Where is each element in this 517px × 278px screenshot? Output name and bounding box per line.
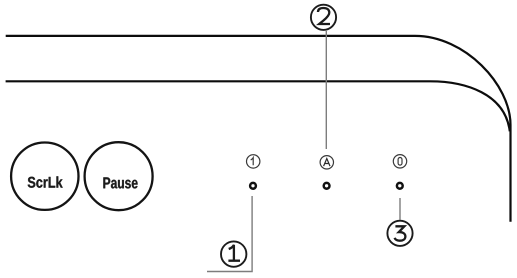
LED dot 2	[324, 183, 330, 189]
callout 1 leader line	[207, 196, 252, 272]
callout 3 leader line	[399, 198, 401, 220]
caps lock icon letter A	[324, 159, 330, 167]
callout 3 circle	[387, 221, 412, 246]
callout 3 digit	[395, 226, 406, 240]
callout 1 circle	[221, 241, 246, 266]
key ScrLk circle	[11, 143, 78, 210]
key Pause label	[103, 177, 137, 188]
num lock icon circle	[247, 155, 260, 168]
num lock icon digit 1	[251, 158, 254, 166]
callout 1 digit	[228, 245, 240, 261]
scroll lock icon circle	[393, 155, 406, 168]
keyboard inner edge line	[6, 81, 510, 131]
callout 2 digit	[318, 8, 330, 24]
scroll lock icon capsule	[398, 158, 402, 166]
keyboard top edge line	[6, 36, 511, 222]
caps lock icon circle	[320, 156, 333, 169]
LED dot 1	[250, 183, 256, 189]
key Pause circle	[85, 142, 153, 210]
LED dot 3	[397, 183, 403, 189]
callout 2 leader line	[325, 31, 327, 149]
callout 2 circle	[311, 5, 336, 30]
key ScrLk label	[28, 176, 63, 187]
